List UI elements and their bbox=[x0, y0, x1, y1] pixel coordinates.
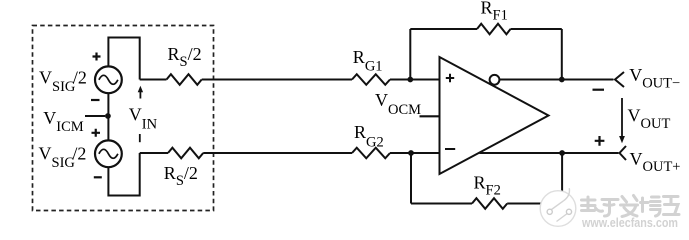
wire top rail segment 2 bbox=[202, 79, 352, 81]
plus mark output bottom bbox=[595, 136, 605, 146]
op-amp minus input mark bbox=[445, 148, 455, 150]
wire VICM stub bbox=[85, 115, 105, 117]
VIN tick below bbox=[139, 134, 141, 142]
terminal arrow VOUT- bbox=[615, 72, 624, 87]
watermark logo circle (overlays wires) bbox=[540, 188, 576, 226]
wire bottom rail segment 1 bbox=[140, 152, 168, 154]
terminal arrow VOUT+ bbox=[620, 146, 627, 160]
minus mark source V2 bbox=[94, 176, 102, 178]
feedback RF2 vertical right bbox=[561, 153, 563, 204]
feedback RF1 vertical left bbox=[409, 29, 411, 80]
svg-text:www.elecfans.com: www.elecfans.com bbox=[581, 216, 678, 230]
wire between sources bbox=[107, 93, 109, 140]
source V1 top VSIG/2 bbox=[95, 66, 122, 93]
wire top rail segment 1 bbox=[140, 79, 167, 81]
resistor RF1 bbox=[477, 24, 511, 35]
wire bottom rail segment 3 bbox=[390, 152, 440, 154]
wire VOCM stub bbox=[420, 115, 440, 117]
feedback RF2 wire left bbox=[411, 203, 472, 205]
node dot output top bbox=[559, 77, 565, 83]
minus mark source V1 bbox=[91, 99, 100, 101]
wire bottom rail segment 2 bbox=[203, 152, 352, 154]
node dot RG2/RF2 bbox=[408, 150, 414, 156]
plus mark source V1 bbox=[93, 53, 101, 61]
wire bottom source loop bbox=[108, 153, 139, 196]
wire top rail segment 3 bbox=[390, 79, 440, 81]
feedback RF1 wire left bbox=[410, 28, 477, 30]
feedback RF1 vertical right bbox=[561, 29, 563, 80]
dashed source box bbox=[33, 26, 214, 211]
resistor RS/2 bottom bbox=[168, 148, 203, 159]
VIN arrow up bbox=[139, 91, 141, 99]
resistor RS/2 top bbox=[167, 74, 202, 85]
source V2 bottom VSIG/2 bbox=[95, 140, 122, 167]
watermark text 电子发烧友 (stylized) bbox=[582, 196, 680, 217]
wire output top bbox=[499, 79, 613, 81]
resistor RG1 bbox=[352, 74, 390, 85]
op-amp U1 triangle bbox=[440, 57, 549, 174]
op-amp output bubble bbox=[490, 75, 500, 85]
feedback RF2 vertical left bbox=[410, 153, 412, 204]
resistor RF2 bbox=[472, 198, 507, 209]
node dot RG1/RF1 bbox=[407, 77, 413, 83]
feedback RF1 wire right bbox=[511, 28, 562, 30]
op-amp plus input mark bbox=[446, 74, 454, 82]
wire top source loop bbox=[108, 38, 139, 80]
resistor RG2 bbox=[352, 148, 390, 159]
feedback RF2 wire right bbox=[507, 203, 562, 205]
wire output bottom bbox=[480, 152, 619, 154]
node dot output bottom bbox=[559, 150, 565, 156]
minus mark output top bbox=[593, 89, 605, 91]
node ICM junction dot bbox=[105, 113, 111, 119]
plus mark source V2 bbox=[92, 129, 101, 137]
VOUT arrow down bbox=[621, 98, 623, 137]
